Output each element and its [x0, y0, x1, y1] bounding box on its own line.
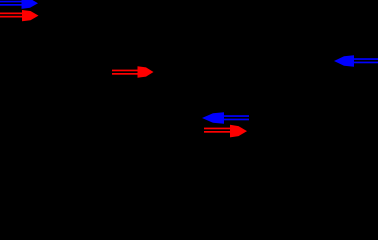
- red arrow (middle-left, pointing right): [112, 66, 154, 77]
- red arrow (bottom-middle, pointing right): [204, 125, 247, 138]
- blue arrow (bottom-middle, pointing left): [202, 112, 249, 124]
- red arrow (top-left, pointing right): [0, 10, 39, 21]
- blue arrow (top-left, pointing right): [0, 0, 38, 9]
- blue arrow (right edge, pointing left): [334, 55, 378, 67]
